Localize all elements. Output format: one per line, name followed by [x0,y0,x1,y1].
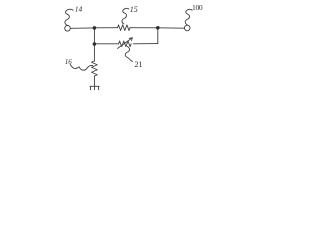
wire node A down to node C [93,28,95,44]
ground symbol [90,85,99,87]
svg-text:16: 16 [65,58,73,66]
svg-text:100: 100 [192,3,203,12]
wire node B to terminal T2 [158,27,184,29]
arrow of variable resistor 21 [118,38,133,49]
svg-text:15: 15 [130,5,138,14]
wire node C down to resistor 16 [93,44,95,61]
leader squiggle to label 15 [122,8,129,24]
wire T1 to node A [70,27,94,29]
svg-text:21: 21 [135,60,143,69]
resistor 16 zigzag (vertical) [92,61,98,76]
node B junction dot [156,26,160,30]
leader squiggle to label 21 [125,46,132,61]
leader squiggle to label 14 [65,9,73,25]
variable resistor 21 zigzag [119,41,131,47]
leader squiggle to label 16 [70,64,92,70]
wire resistor 16 to ground [93,76,95,86]
leader squiggle to label 100 [185,9,192,25]
wire variable resistor 21 to right corner [133,43,157,45]
node A junction dot [93,26,97,30]
wire resistor 15 to node B [130,27,158,29]
wire node C to variable resistor 21 [94,43,118,45]
svg-text:14: 14 [75,5,83,14]
terminal T2 (output, right) [184,25,190,31]
terminal T1 (input, left) [65,26,71,32]
wire right corner up to node B [157,28,159,44]
resistor 15 zigzag [118,25,131,31]
wire node A to resistor 15 [94,27,117,29]
node C junction dot [93,42,97,46]
